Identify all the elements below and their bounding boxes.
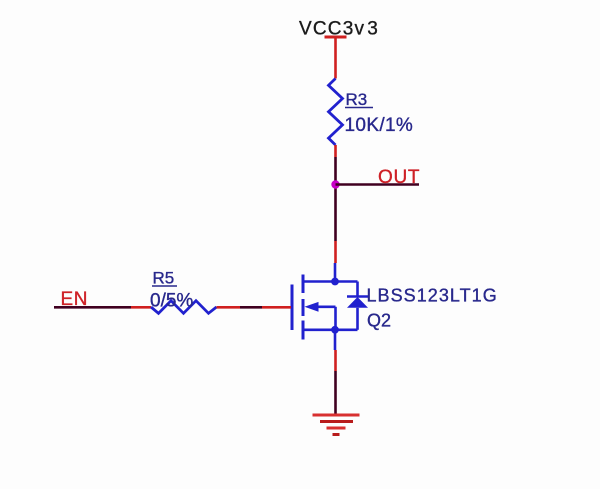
wire OUT stub xyxy=(336,183,420,186)
wire VCC3v3 to R3 xyxy=(334,37,337,79)
label R3 xyxy=(345,90,373,109)
label R5 xyxy=(152,269,177,288)
label LBSS123LT1G xyxy=(367,286,498,306)
net label OUT xyxy=(378,167,420,188)
resistor R3 xyxy=(329,79,343,146)
svg-text:R3: R3 xyxy=(346,90,368,109)
svg-text:LBSS123LT1G: LBSS123LT1G xyxy=(367,286,498,306)
resistor R3 bottom pin xyxy=(334,145,337,157)
resistor R5 xyxy=(151,301,217,314)
transistor Q2 source pin xyxy=(334,330,337,371)
label 10K/1% xyxy=(345,115,414,136)
svg-text:Q2: Q2 xyxy=(367,311,391,331)
transistor Q2 xyxy=(292,275,358,340)
ground symbol xyxy=(313,415,360,435)
svg-text:10K/1%: 10K/1% xyxy=(345,115,414,136)
junction dot source xyxy=(331,326,339,334)
label Q2 xyxy=(367,311,391,331)
wire source to ground xyxy=(334,371,337,414)
svg-text:R5: R5 xyxy=(153,269,175,288)
transistor Q2 drain pin xyxy=(334,241,337,282)
label 0/5% xyxy=(150,291,193,312)
net label VCC3v3 xyxy=(299,19,379,40)
net label EN xyxy=(61,289,89,310)
body diode of Q2 xyxy=(347,282,368,330)
wire EN to R5 xyxy=(54,306,151,309)
svg-text:OUT: OUT xyxy=(378,167,420,188)
svg-text:0/5%: 0/5% xyxy=(150,291,193,312)
wire OUT net vertical xyxy=(334,157,337,241)
wire R5 to Q2 gate xyxy=(217,306,292,309)
power symbol VCC3v3 xyxy=(325,36,347,39)
junction dot OUT xyxy=(331,180,339,188)
junction dot drain xyxy=(331,278,339,286)
